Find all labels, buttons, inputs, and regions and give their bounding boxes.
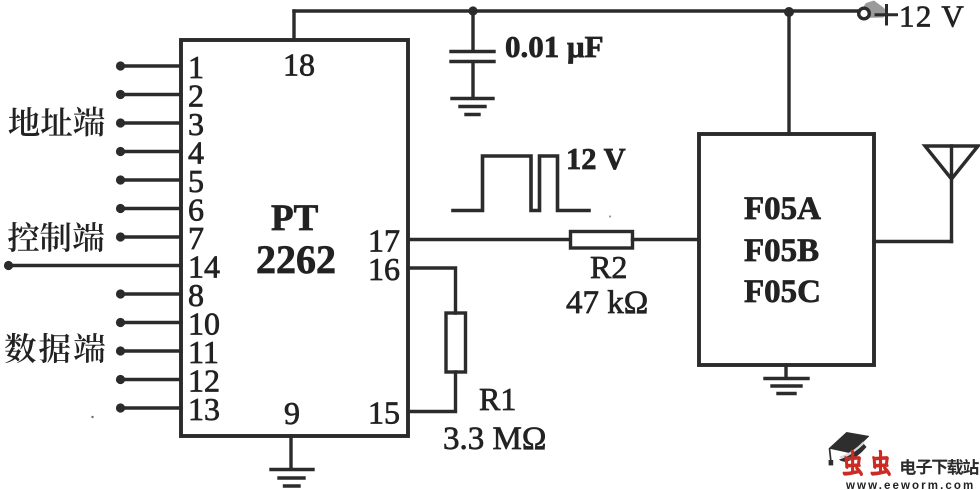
svg-text:0.01 μF: 0.01 μF: [505, 29, 604, 64]
svg-text:F05C: F05C: [744, 274, 821, 310]
svg-text:15: 15: [368, 395, 400, 431]
node dot pin13: [116, 403, 125, 412]
ground below C1: [452, 99, 493, 115]
artifact speck: [91, 416, 93, 418]
wire pin16 to R1: [408, 268, 456, 313]
wire R1 to pin15: [408, 372, 456, 412]
svg-text:F05A: F05A: [744, 191, 821, 227]
wire R2 to F05: [633, 238, 700, 241]
module U2 F05 box: [699, 134, 874, 365]
wire pin13: [124, 406, 181, 409]
svg-text:18: 18: [283, 47, 315, 83]
wire pin12: [124, 378, 181, 381]
node dot pin2: [116, 90, 125, 99]
svg-text:F05B: F05B: [744, 233, 819, 269]
wire pin17 to R2: [408, 238, 570, 241]
node dot pin8: [116, 289, 125, 298]
label +12 V: [875, 4, 899, 26]
label terminal 地址端 (address): [9, 106, 105, 136]
wire pin10: [124, 321, 181, 324]
svg-text:R1: R1: [479, 381, 516, 417]
node dot pin4: [116, 147, 125, 156]
node dot pin14: [4, 261, 13, 270]
junction node at F05 branch: [784, 7, 794, 17]
capacitor C1 plates: [451, 52, 494, 62]
node dot pin1: [116, 61, 125, 70]
svg-text:2262: 2262: [256, 237, 336, 282]
wire F05 to antenna: [874, 240, 952, 243]
wire pin1: [124, 64, 181, 67]
wire pin14: [9, 264, 181, 267]
svg-text:www.eeworm.com: www.eeworm.com: [845, 480, 975, 490]
label terminal 数据端 (data): [5, 333, 105, 363]
svg-text:9: 9: [284, 395, 300, 431]
capacitor C1 0.01uF lead top: [471, 11, 474, 50]
artifact gray smudge near +12V: [857, 1, 888, 19]
svg-text:13: 13: [188, 391, 220, 427]
svg-text:16: 16: [368, 251, 400, 287]
wire pin2: [124, 93, 181, 96]
svg-text:3.3 MΩ: 3.3 MΩ: [443, 421, 546, 457]
node dot pin7: [116, 232, 125, 241]
wire pin11: [124, 349, 181, 352]
label terminal 控制端 (control): [8, 222, 104, 252]
watermark 虫虫 red: [843, 451, 890, 475]
node dot pin5: [116, 175, 125, 184]
resistor R2 body: [571, 232, 633, 249]
node dot pin3: [116, 118, 125, 127]
ground below F05: [784, 365, 787, 377]
terminal +12V circle: [859, 8, 870, 19]
svg-text:PT: PT: [271, 198, 319, 239]
wire pin4: [124, 150, 181, 153]
node dot pin11: [116, 346, 125, 355]
watermark logo graduation cap: [829, 432, 870, 465]
wire pin6: [124, 207, 181, 210]
node dot pin10: [116, 318, 125, 327]
antenna E1: [950, 146, 953, 242]
svg-text:12 V: 12 V: [899, 0, 965, 34]
junction node at capacitor: [468, 6, 477, 15]
IC U1 PT2262 box: [181, 40, 408, 436]
wire pin5: [124, 178, 181, 181]
svg-text:R2: R2: [590, 249, 627, 285]
wire rail to F05 top: [787, 11, 790, 134]
wire pin3: [124, 121, 181, 124]
watermark 电子下载站: [901, 459, 979, 475]
waveform pulse: [453, 156, 589, 211]
ground below U1 pin9: [289, 436, 292, 468]
node dot pin6: [116, 204, 125, 213]
wire pin18 to rail: [292, 11, 295, 40]
wire pin8: [124, 292, 181, 295]
svg-text:47 kΩ: 47 kΩ: [566, 285, 648, 321]
resistor R1 body: [446, 313, 466, 372]
node dot pin12: [116, 375, 125, 384]
wire pin7: [124, 235, 181, 238]
wire +12V top rail: [294, 9, 862, 12]
svg-text:12 V: 12 V: [566, 142, 626, 176]
capacitor C1 lead bottom: [471, 62, 474, 97]
